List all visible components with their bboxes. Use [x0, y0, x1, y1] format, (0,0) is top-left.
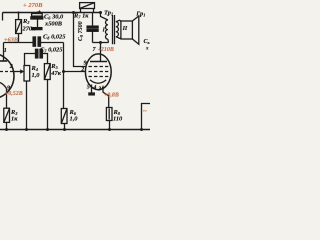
capacitor C8 plates	[33, 37, 35, 46]
resistor R5 box	[44, 64, 50, 80]
svg-text:47к: 47к	[50, 70, 61, 77]
tube VL2 cathode	[90, 80, 106, 83]
capacitor C9 riser from rail	[92, 13, 94, 27]
loudspeaker Gr1 body	[121, 21, 132, 39]
resistor R6 power mark	[61, 109, 67, 124]
svg-text:х: х	[145, 47, 149, 52]
wire: pin 1 riser and anode lead of VL1	[3, 43, 5, 62]
svg-text:110: 110	[113, 116, 123, 123]
transformer Tr1 core	[113, 15, 115, 44]
transformer Tr1 secondary winding	[116, 22, 119, 37]
capacitor C9 plates	[87, 26, 98, 28]
wire: secondary top lead to speaker	[116, 20, 121, 22]
svg-text:R7 1к: R7 1к	[73, 13, 89, 20]
capacitor C7 left wire to R4 top	[25, 54, 36, 66]
node: junction dot at grid column	[62, 70, 65, 73]
svg-text:3: 3	[97, 87, 101, 93]
wire: R5 bottom to ground rail	[47, 80, 49, 130]
resistor R7 box (series element above rail)	[80, 3, 95, 9]
svg-text:2: 2	[80, 67, 84, 73]
svg-text:9: 9	[84, 60, 87, 66]
wire: R8 bottom to ground rail	[109, 121, 111, 130]
wire: pin 7 riser and VL2 anode lead	[100, 43, 102, 62]
wire: R2 top stub	[18, 13, 20, 20]
capacitor C6 riser from rail	[37, 13, 39, 14]
wire: VL1 grid to volume pot wiper	[14, 71, 21, 73]
capacitor C6 negative plate	[31, 17, 43, 19]
wire: C9 bottom to anode wire	[92, 31, 94, 42]
resistor R3 box	[4, 108, 10, 122]
ground chassis bar under heater pin	[89, 93, 94, 95]
wire: R3 bottom to ground rail	[6, 122, 8, 129]
svg-text:+9,8В: +9,8В	[104, 93, 119, 99]
wire: grid wire to output tube pin 2	[64, 71, 86, 73]
node: ground rail junction dots	[5, 128, 8, 131]
svg-text:C9 7500: C9 7500	[78, 21, 84, 41]
resistor R7 power mark	[80, 3, 95, 9]
tube VL2 suppressor grid (dashed)	[89, 76, 109, 78]
tube VL2 control grid (dashed)	[89, 71, 109, 73]
wire: +270V top rail	[3, 12, 102, 14]
resistor R6 box	[61, 109, 67, 124]
tube VL2 envelope	[85, 54, 111, 90]
svg-text:+210В: +210В	[98, 47, 114, 53]
ground chassis bar under C6	[32, 28, 42, 30]
wire: primary bottom lead	[107, 39, 110, 42]
svg-text:Cк: Cк	[144, 39, 151, 45]
wire: rail corner down to primary top	[101, 13, 108, 21]
capacitor C7 plates	[36, 49, 38, 58]
node: dot at rail transformer corner	[99, 11, 102, 14]
tube VL1 grid (dashed)	[0, 71, 14, 73]
wire: R7 stubs to rail	[81, 9, 94, 13]
loudspeaker Gr1 cone	[132, 16, 138, 44]
wire: VL2 anode wire to transformer primary	[93, 42, 109, 44]
wire: C6 to chassis bar	[37, 19, 39, 28]
tube VL1 envelope (cropped circle)	[0, 53, 14, 99]
svg-text:R5: R5	[50, 63, 58, 70]
ground rail (bottom)	[0, 129, 150, 131]
wire: R4 bottom to ground rail	[26, 81, 28, 130]
wire: heater pin 5 lead to chassis	[91, 85, 93, 94]
tube VL2 anode plate	[90, 61, 107, 63]
svg-text:C7 0,025: C7 0,025	[40, 47, 63, 54]
svg-text:+0,52В: +0,52В	[5, 91, 23, 97]
resistor R2 box	[16, 20, 22, 34]
tube VL1 cathode	[0, 83, 7, 89]
svg-text:1к: 1к	[11, 116, 18, 123]
svg-text:1,0: 1,0	[32, 72, 41, 79]
svg-text:4: 4	[92, 85, 96, 91]
svg-text:Гр1: Гр1	[135, 11, 145, 18]
transformer Tr1 primary winding	[106, 20, 108, 39]
svg-text:~: ~	[143, 108, 147, 116]
svg-text:270к: 270к	[22, 26, 37, 33]
svg-text:C6 30,0: C6 30,0	[44, 14, 64, 21]
svg-text:1,0: 1,0	[70, 116, 79, 123]
tube VL1 anode plate	[0, 60, 7, 62]
node: dot at C6 tap	[36, 11, 38, 13]
node: dot at screen column on rail	[72, 11, 75, 14]
capacitor C6 plus sign	[38, 10, 40, 12]
wire: R6 bottom to ground rail	[64, 124, 66, 130]
capacitor C6 positive plate (hollow)	[32, 14, 43, 17]
wire: triode anode wire (+63V node)	[4, 42, 64, 44]
resistor R3 power mark	[4, 108, 10, 122]
resistor R8 power mark (1W)	[108, 109, 110, 120]
capacitor C7 right wire to R5 top	[42, 54, 47, 64]
resistor R2 power mark	[16, 20, 22, 34]
potentiometer R4 box	[24, 66, 30, 82]
node: dot at pin 7 riser	[99, 41, 102, 44]
svg-text:1: 1	[4, 48, 7, 54]
tube VL2 screen grid (dashed)	[89, 66, 109, 68]
wire: VL2 cathode pin 3 down to R8	[103, 88, 109, 108]
resistor R8 box	[106, 108, 112, 121]
resistor R5 power mark	[44, 64, 50, 80]
svg-text:C8 0,025: C8 0,025	[43, 33, 66, 40]
node: +270V label	[0, 0, 1, 1]
wire: screen supply column to VL2 pin 8	[74, 13, 87, 67]
svg-text:R4: R4	[31, 65, 39, 72]
svg-text:Тр1: Тр1	[104, 10, 113, 17]
svg-text:5: 5	[87, 85, 90, 91]
node: dot at R2 tap	[17, 11, 19, 13]
svg-text:R2: R2	[22, 18, 30, 25]
wire: secondary bottom lead to speaker	[116, 37, 121, 39]
potentiometer R4 wiper arrow	[20, 71, 22, 73]
svg-text:+ 270В: + 270В	[23, 2, 43, 9]
wire: VL1 cathode pin 9 down to R3	[6, 89, 8, 109]
svg-text:x500В: x500В	[44, 21, 63, 28]
wire: R2 bottom to anode node	[18, 34, 20, 43]
wire: cropped feed stub at left edge	[2, 13, 4, 21]
wire: C8 output down the junction column	[63, 43, 65, 109]
svg-text:+63В: +63В	[4, 37, 18, 44]
svg-text:2: 2	[9, 64, 13, 70]
svg-text:II: II	[122, 26, 128, 32]
power unit box (cropped)	[142, 104, 151, 130]
